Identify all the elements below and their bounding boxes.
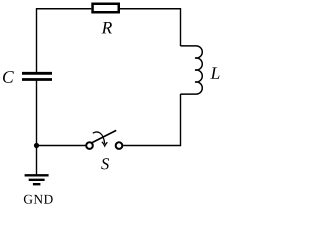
wire ground stem xyxy=(36,146,38,175)
wire bottom left segment xyxy=(37,145,86,147)
switch S contact right xyxy=(116,142,123,149)
inductor L xyxy=(181,46,203,94)
label S xyxy=(101,158,109,169)
switch S arrow xyxy=(93,132,105,144)
wire top left segment xyxy=(37,8,92,10)
capacitor C xyxy=(22,73,52,79)
switch S blade xyxy=(92,130,117,143)
node junction xyxy=(34,143,39,148)
label L xyxy=(210,67,219,78)
wire right upper xyxy=(180,8,182,46)
label C xyxy=(3,71,14,83)
wire top right segment xyxy=(120,8,181,10)
wire bottom right segment xyxy=(123,145,180,147)
ground xyxy=(25,175,49,184)
wire left lower xyxy=(36,80,38,146)
wire right lower xyxy=(180,94,182,146)
resistor R xyxy=(93,4,119,13)
switch S arrowhead xyxy=(102,142,107,146)
label R xyxy=(102,22,112,33)
label GND xyxy=(24,195,53,204)
wire left upper xyxy=(36,8,38,72)
switch S contact left xyxy=(86,142,93,149)
